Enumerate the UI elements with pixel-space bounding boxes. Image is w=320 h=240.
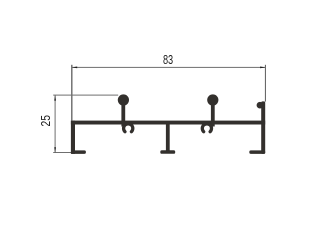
ball B1 on stem [118, 94, 129, 105]
svg-text:25: 25 [39, 115, 53, 126]
extension line left of dim 83 [71, 65, 72, 121]
screw-channel clip under ball B2 [202, 124, 211, 132]
screw-channel clip under ball B1 [124, 124, 133, 132]
extension line right of dim 83 [265, 65, 266, 102]
extension line bottom of dim 25 [53, 152, 71, 153]
arrowhead down of dim 25 [54, 147, 56, 152]
stem of ball B2 [211, 100, 215, 127]
stem of ball B1 [121, 100, 125, 127]
right foot [249, 150, 265, 154]
middle T foot [160, 150, 175, 154]
arrowhead left of dim 83 [72, 67, 77, 69]
right wall [261, 101, 265, 153]
left foot [71, 150, 86, 154]
dimension line 25 [55, 95, 56, 152]
ball B2 on stem [207, 94, 218, 105]
right wall top knob [257, 102, 264, 109]
dimension line 83 [71, 67, 265, 68]
arrowhead right of dim 83 [260, 67, 265, 69]
svg-text:83: 83 [163, 53, 173, 67]
extension line top of dim 25 [53, 95, 118, 96]
main horizontal web of profile [71, 121, 265, 125]
left wall [71, 121, 75, 154]
middle T stem [166, 124, 170, 151]
arrowhead up of dim 25 [54, 95, 56, 100]
